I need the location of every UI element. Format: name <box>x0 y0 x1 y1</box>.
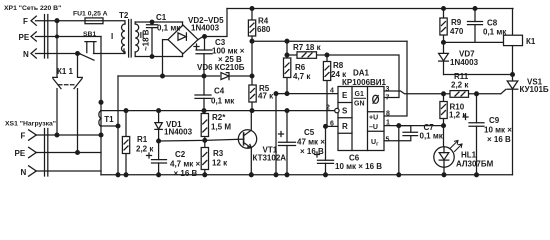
svg-text:~18 В: ~18 В <box>142 29 151 51</box>
svg-text:3: 3 <box>386 86 390 93</box>
pushbutton SB1 <box>79 42 97 61</box>
svg-text:R7 18 к: R7 18 к <box>293 43 322 52</box>
node pin6 R8 <box>324 125 328 129</box>
cable marker XP1 <box>45 15 48 59</box>
node pin1 ground drop <box>397 124 401 128</box>
node pin1 drop rail <box>397 173 401 177</box>
wire minus rail horizontal <box>118 75 220 77</box>
node C4 bottom on long wire <box>202 109 206 113</box>
wire bridge plus up to top rail <box>198 9 227 40</box>
svg-text:4,7 к: 4,7 к <box>293 72 311 81</box>
node R10/HL1/pin1 <box>442 124 446 128</box>
svg-text:С8: С8 <box>487 19 498 28</box>
svg-text:R6: R6 <box>295 63 306 72</box>
svg-text:2,2 к: 2,2 к <box>136 145 154 154</box>
IC DA1 box <box>338 87 384 151</box>
node R6 bottom pin4 <box>285 92 289 96</box>
wire N SB1 to T2 <box>94 49 125 54</box>
svg-text:С1: С1 <box>156 13 167 22</box>
IC G1/GN fraction bar <box>354 97 367 99</box>
svg-text:1,5 М: 1,5 М <box>211 123 231 132</box>
wire R9/C8 bottom to K1 <box>444 41 504 43</box>
wire F mains <box>36 20 86 22</box>
svg-text:6: 6 <box>330 121 334 128</box>
node R5 bottom <box>250 109 254 113</box>
connector XP1 pin N arrow <box>31 49 36 58</box>
svg-text:N: N <box>21 168 27 177</box>
IC pin2 input circle <box>335 108 339 112</box>
node N junction <box>76 52 80 56</box>
node bridge minus on wire <box>161 74 165 78</box>
node C1 top <box>150 20 154 24</box>
svg-text:DA1: DA1 <box>353 69 370 78</box>
resistor R1 <box>122 111 129 175</box>
svg-text:КТ3102А: КТ3102А <box>253 154 287 163</box>
node F junction <box>55 19 59 23</box>
svg-text:VD6 КС210Б: VD6 КС210Б <box>197 63 245 72</box>
node R2/R3 junction <box>203 139 207 143</box>
svg-text:К1: К1 <box>526 37 536 46</box>
resistor R7 <box>287 52 327 59</box>
node C9 bottom rail <box>475 173 479 177</box>
node pin4 corner <box>274 92 278 96</box>
svg-text:С9: С9 <box>489 116 500 125</box>
svg-text:PE: PE <box>15 149 26 158</box>
node VS1 anode <box>511 73 515 77</box>
svg-text:R2*: R2* <box>212 113 226 122</box>
wire R7R8 junction to pin7 <box>327 55 399 98</box>
resistor R10 <box>440 94 447 147</box>
svg-text:1N4003: 1N4003 <box>191 24 220 33</box>
node VD1 bottom <box>157 139 161 143</box>
node C5 bottom rail <box>285 173 289 177</box>
svg-text:1N4003: 1N4003 <box>450 58 479 67</box>
wire pin1 <box>385 126 444 175</box>
node R1 bottom rail <box>124 173 128 177</box>
svg-text:КУ101Б: КУ101Б <box>520 85 549 94</box>
node R4 bottom <box>250 39 254 43</box>
node R1 top <box>124 109 128 113</box>
IC output symbol <box>373 95 379 103</box>
node minus drop on rail <box>116 173 120 177</box>
wire bridge minus to vertical <box>163 40 169 76</box>
resistor R9 <box>440 9 447 43</box>
wire PE mains <box>36 36 102 38</box>
node VD1 top <box>157 109 161 113</box>
transformer T2 core <box>129 20 132 58</box>
node x276 rail <box>274 173 278 177</box>
svg-text:× 16 В: × 16 В <box>174 169 198 178</box>
fuse FU1 <box>85 18 103 24</box>
wire pin6 <box>326 125 339 127</box>
svg-text:× 16 В: × 16 В <box>487 135 511 144</box>
svg-text:N: N <box>23 50 29 59</box>
thyristor VS1 <box>501 75 518 175</box>
svg-text:PE: PE <box>19 33 30 42</box>
node load F K1.1 <box>55 133 59 137</box>
node C9 top <box>475 92 479 96</box>
capacitor C7 <box>385 126 418 141</box>
svg-text:F: F <box>23 17 28 26</box>
wire pin4 <box>276 94 338 175</box>
transistor VT1 <box>238 111 256 175</box>
svg-text:К1 1: К1 1 <box>57 67 74 76</box>
svg-text:G1: G1 <box>355 91 364 98</box>
resistor R4 <box>248 9 255 42</box>
svg-text:× 16 В: × 16 В <box>300 147 324 156</box>
svg-text:SB1: SB1 <box>83 31 96 38</box>
zener diode VD6 <box>221 73 252 80</box>
node R7/R8 junction <box>325 53 329 57</box>
top rail +18V <box>227 8 513 10</box>
svg-text:0,1 мк: 0,1 мк <box>157 24 181 33</box>
wire N mains left <box>36 53 81 55</box>
svg-text:R3: R3 <box>213 149 224 158</box>
relay coil K1 <box>504 9 523 75</box>
svg-text:4,7 мк ×: 4,7 мк × <box>170 160 200 169</box>
node PE crossing blob <box>56 35 59 38</box>
contact K1.1 left <box>53 21 61 135</box>
wire AC top secondary to bridge <box>135 21 182 23</box>
node R6 top <box>285 39 289 43</box>
node R9 top rail <box>442 7 446 11</box>
node load F end <box>99 133 103 137</box>
svg-text:+U: +U <box>369 115 378 122</box>
node load PE K1.1 <box>76 151 80 155</box>
svg-text:0,1 мк: 0,1 мк <box>211 97 235 106</box>
node T1 top <box>99 100 103 104</box>
svg-text:С4: С4 <box>214 87 225 96</box>
bridge rectifier VD2-VD5 <box>168 22 198 57</box>
svg-text:АЛ307БМ: АЛ307БМ <box>456 160 494 169</box>
resistor R5 <box>249 41 256 110</box>
svg-text:FU1 0,25 A: FU1 0,25 A <box>73 11 108 18</box>
svg-text:8: 8 <box>386 111 390 118</box>
svg-text:S: S <box>342 107 348 116</box>
svg-text:2,2 к: 2,2 к <box>451 81 469 90</box>
capacitor C8 <box>468 9 483 43</box>
svg-text:Т2: Т2 <box>119 11 129 20</box>
svg-text:R8: R8 <box>333 61 344 70</box>
wire load PE <box>36 152 102 154</box>
svg-text:2: 2 <box>326 105 330 112</box>
svg-text:–U: –U <box>369 124 378 131</box>
node C2 bottom rail <box>157 173 161 177</box>
contact K1.1 right <box>74 54 82 153</box>
node C5 top <box>285 109 289 113</box>
diode VD7 <box>439 42 449 74</box>
capacitor C2 <box>147 141 167 175</box>
node HL1 bottom rail <box>442 173 446 177</box>
svg-text:47 к: 47 к <box>258 92 274 101</box>
node C1 bottom <box>150 55 154 59</box>
node C3 bottom <box>202 74 206 78</box>
wire AC bottom secondary to bridge <box>135 56 182 58</box>
svg-text:7: 7 <box>386 95 390 102</box>
wire load F <box>36 134 102 136</box>
node R4 top <box>250 7 254 11</box>
ground rail <box>101 174 513 176</box>
stabilized rail <box>252 40 407 42</box>
svg-text:1,2 к: 1,2 к <box>449 111 467 120</box>
svg-text:R: R <box>342 122 348 131</box>
svg-text:С5: С5 <box>304 128 315 137</box>
svg-text:680: 680 <box>257 25 271 34</box>
svg-text:0,1 мк: 0,1 мк <box>483 28 507 37</box>
base wire VT1 <box>159 139 244 141</box>
node T1 sec bottom <box>116 124 120 128</box>
svg-text:Т1: Т1 <box>104 115 114 124</box>
minus drop x118 <box>117 76 119 175</box>
capacitor C1 <box>147 22 158 57</box>
capacitor C5 <box>279 111 296 175</box>
node C3 top <box>203 35 207 39</box>
resistor R3 <box>201 140 208 174</box>
T1 secondary wire top <box>101 111 118 126</box>
node R10 top <box>442 92 446 96</box>
svg-text:12 к: 12 к <box>212 159 228 168</box>
svg-text:XS1 "Нагрузка": XS1 "Нагрузка" <box>5 121 56 128</box>
node zener cathode R4/R5 <box>250 74 254 78</box>
diode VD1 <box>155 111 162 141</box>
wire C3 tap <box>204 37 206 51</box>
svg-text:1N4003: 1N4003 <box>164 128 193 137</box>
svg-text:1: 1 <box>386 120 390 127</box>
node VD7 top <box>442 41 446 45</box>
connector XS1 pin PE arrow <box>29 147 37 157</box>
node C6 bottom rail <box>324 173 328 177</box>
capacitor C4 <box>195 76 211 111</box>
svg-text:F: F <box>21 132 26 141</box>
connector XP1 pin PE arrow <box>31 32 36 41</box>
svg-text:GN: GN <box>354 101 365 108</box>
svg-text:HL1: HL1 <box>461 151 477 160</box>
svg-text:4: 4 <box>330 88 334 95</box>
svg-text:47 мк ×: 47 мк × <box>297 138 325 147</box>
wire pin3 output <box>385 91 501 94</box>
svg-text:10 мк ×: 10 мк × <box>484 126 512 135</box>
resistor R8 <box>323 55 330 126</box>
capacitor C9 <box>463 94 484 175</box>
long node wire y110.6 <box>101 110 335 112</box>
svg-text:ХР1 "Сеть 220 В": ХР1 "Сеть 220 В" <box>4 5 61 12</box>
node VT1 emitter rail <box>249 173 253 177</box>
svg-text:КР1006ВИ1: КР1006ВИ1 <box>342 78 387 87</box>
svg-text:I: I <box>111 32 113 41</box>
capacitor C3 <box>194 44 212 76</box>
wire pin8 <box>385 41 408 116</box>
LED HL1 <box>434 141 462 175</box>
wire VD7 to VS1 anode <box>444 74 513 76</box>
svg-text:10 мк × 16 В: 10 мк × 16 В <box>335 162 382 171</box>
node R7 left <box>285 53 289 57</box>
svg-text:0,1 мк: 0,1 мк <box>420 132 444 141</box>
resistor R6 <box>284 41 291 93</box>
node R3 bottom rail <box>203 173 207 177</box>
svg-text:470: 470 <box>450 27 464 36</box>
svg-text:С2: С2 <box>175 150 186 159</box>
svg-text:E: E <box>342 91 348 100</box>
transformer T2 secondary <box>135 22 139 57</box>
connector XS1 pin F arrow <box>29 130 37 140</box>
svg-text:5: 5 <box>386 137 390 144</box>
connector XP1 pin F arrow <box>31 16 36 25</box>
svg-text:R9: R9 <box>451 18 462 27</box>
connector XS1 pin N arrow <box>29 166 37 176</box>
resistor R2* <box>201 111 208 141</box>
wire F mains fuse to T2 <box>103 21 125 24</box>
transformer T1 primary <box>36 37 102 175</box>
mechanical link K1.1 dashed <box>59 84 77 86</box>
capacitor C6 <box>315 126 334 174</box>
node C8 top rail <box>473 7 477 11</box>
resistor R11 <box>450 91 469 98</box>
svg-text:R1: R1 <box>137 135 148 144</box>
cable marker XS1 <box>45 129 48 177</box>
transformer T2 primary <box>122 24 126 54</box>
